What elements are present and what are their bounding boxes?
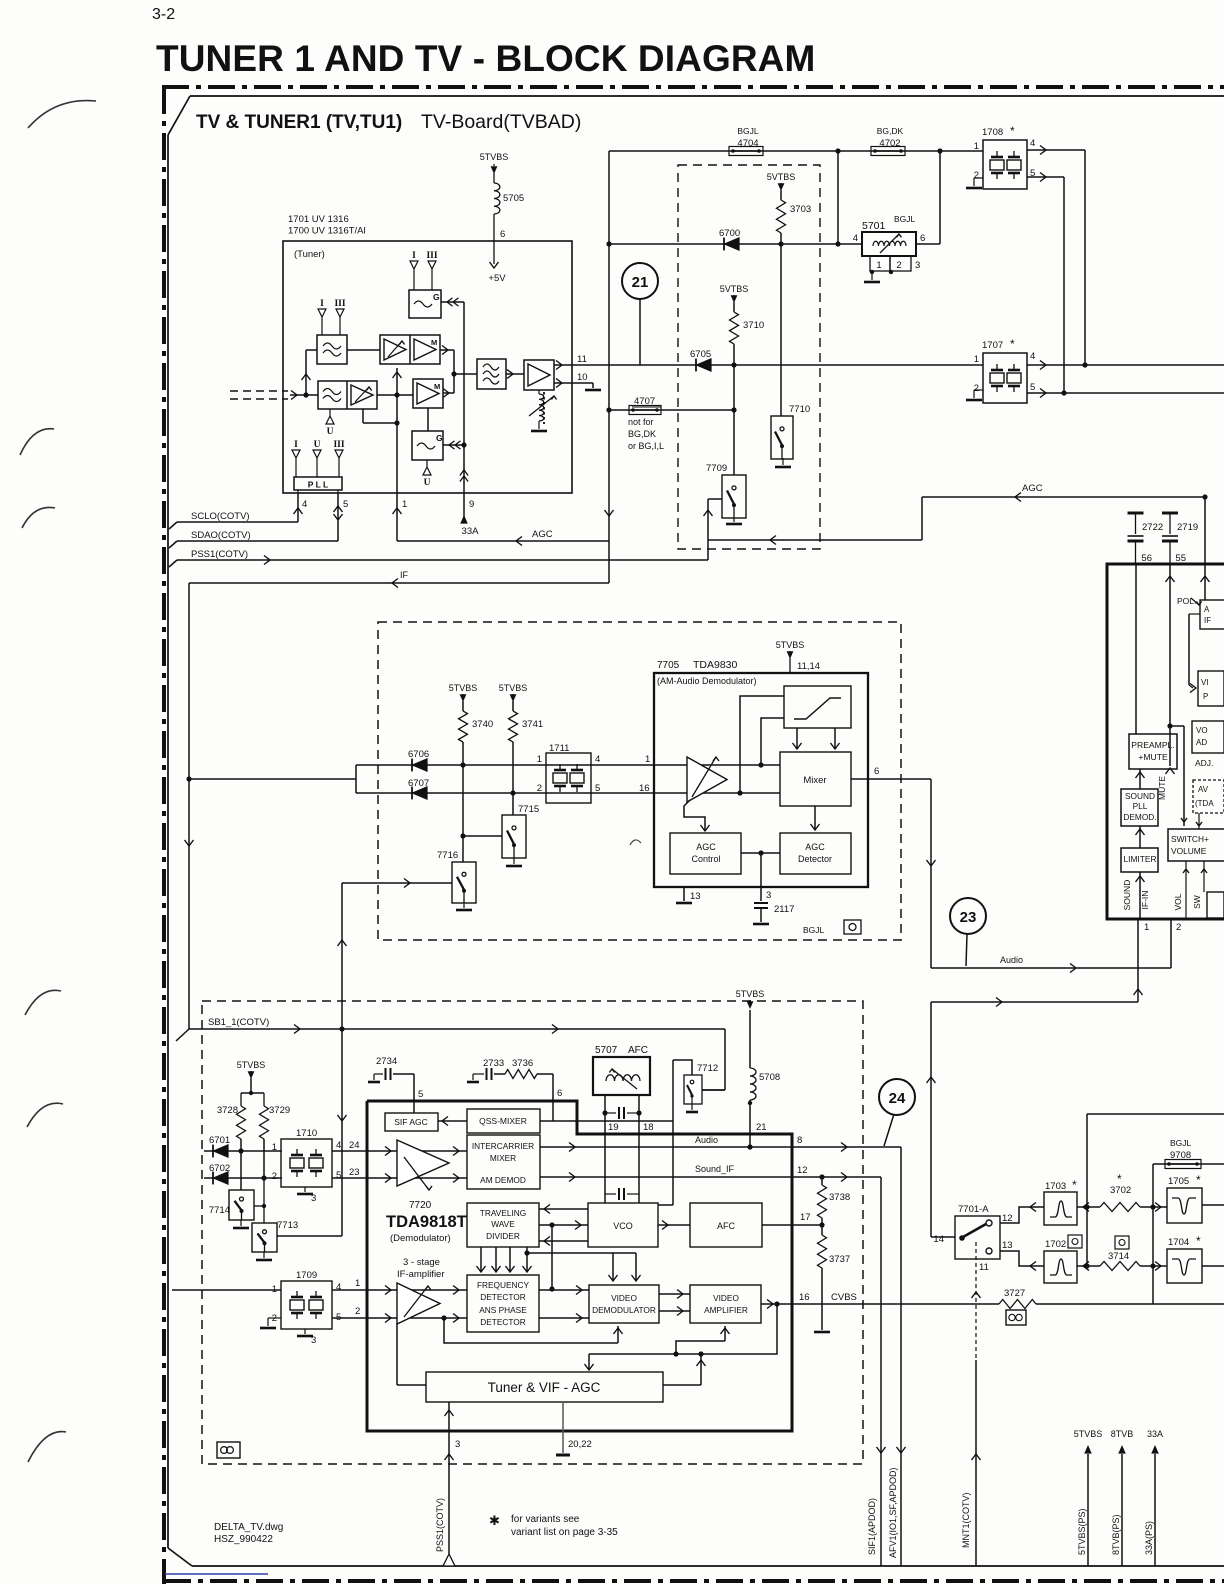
svg-text:4704: 4704 bbox=[737, 138, 758, 149]
svg-text:23: 23 bbox=[349, 1167, 360, 1178]
svg-text:IF: IF bbox=[1204, 616, 1211, 625]
svg-text:3-2: 3-2 bbox=[152, 6, 175, 23]
svg-text:2734: 2734 bbox=[376, 1056, 397, 1067]
svg-text:5701: 5701 bbox=[862, 220, 886, 232]
svg-text:3737: 3737 bbox=[829, 1254, 850, 1265]
svg-text:5TVBS: 5TVBS bbox=[237, 1060, 266, 1070]
svg-text:3: 3 bbox=[915, 260, 920, 271]
svg-text:ADJ.: ADJ. bbox=[1195, 758, 1213, 768]
svg-text:III: III bbox=[334, 299, 345, 309]
svg-text:DELTA_TV.dwg: DELTA_TV.dwg bbox=[214, 1522, 283, 1533]
svg-text:11,14: 11,14 bbox=[797, 661, 820, 672]
svg-text:MNT1(COTV): MNT1(COTV) bbox=[961, 1493, 971, 1549]
svg-text:1: 1 bbox=[355, 1278, 360, 1289]
svg-text:11: 11 bbox=[577, 354, 587, 365]
svg-text:24: 24 bbox=[349, 1140, 360, 1151]
svg-text:III: III bbox=[333, 440, 344, 450]
svg-text:U: U bbox=[424, 478, 431, 488]
svg-text:3727: 3727 bbox=[1004, 1288, 1025, 1299]
svg-text:3740: 3740 bbox=[472, 719, 493, 730]
svg-text:VOL: VOL bbox=[1173, 893, 1183, 910]
svg-text:ANS PHASE: ANS PHASE bbox=[479, 1305, 527, 1315]
svg-text:P L L: P L L bbox=[308, 480, 328, 490]
svg-text:✱: ✱ bbox=[489, 1513, 500, 1528]
svg-text:SCLO(COTV): SCLO(COTV) bbox=[191, 511, 250, 522]
svg-text:1710: 1710 bbox=[296, 1128, 317, 1139]
svg-text:G: G bbox=[433, 292, 440, 302]
svg-text:5: 5 bbox=[336, 1170, 341, 1181]
svg-text:10: 10 bbox=[577, 372, 588, 383]
svg-text:INTERCARRIER: INTERCARRIER bbox=[472, 1141, 534, 1151]
svg-text:6: 6 bbox=[920, 233, 925, 244]
svg-text:6701: 6701 bbox=[209, 1135, 230, 1146]
svg-text:7716: 7716 bbox=[437, 850, 458, 861]
svg-text:Tuner & VIF - AGC: Tuner & VIF - AGC bbox=[488, 1380, 601, 1395]
svg-text:4: 4 bbox=[336, 1282, 341, 1293]
svg-text:*: * bbox=[1196, 1234, 1201, 1248]
svg-text:16: 16 bbox=[639, 783, 650, 794]
svg-text:2: 2 bbox=[355, 1306, 360, 1317]
svg-text:5707: 5707 bbox=[595, 1045, 618, 1056]
svg-text:(Demodulator): (Demodulator) bbox=[390, 1233, 451, 1244]
svg-text:AGC: AGC bbox=[696, 842, 716, 852]
svg-text:7712: 7712 bbox=[697, 1063, 718, 1074]
svg-text:2117: 2117 bbox=[774, 904, 794, 915]
svg-text:3714: 3714 bbox=[1108, 1251, 1129, 1262]
svg-text:PLL: PLL bbox=[1133, 801, 1148, 811]
svg-text:SOUND: SOUND bbox=[1122, 880, 1132, 911]
svg-text:2: 2 bbox=[537, 783, 542, 794]
svg-text:DEMOD.: DEMOD. bbox=[1123, 812, 1156, 822]
svg-text:4: 4 bbox=[1030, 351, 1035, 362]
svg-text:1708: 1708 bbox=[982, 127, 1003, 138]
svg-text:3736: 3736 bbox=[512, 1058, 533, 1069]
svg-text:1: 1 bbox=[876, 260, 881, 271]
svg-text:4: 4 bbox=[595, 754, 600, 765]
svg-text:3729: 3729 bbox=[269, 1105, 290, 1116]
svg-text:7710: 7710 bbox=[789, 404, 810, 415]
svg-text:G: G bbox=[436, 433, 443, 443]
svg-text:21: 21 bbox=[756, 1122, 767, 1133]
svg-text:6700: 6700 bbox=[719, 228, 740, 239]
svg-text:+5V: +5V bbox=[488, 273, 506, 284]
svg-text:IF-IN: IF-IN bbox=[1140, 891, 1150, 910]
svg-text:4702: 4702 bbox=[879, 138, 900, 149]
svg-text:13: 13 bbox=[1002, 1240, 1013, 1251]
svg-text:1: 1 bbox=[402, 499, 407, 510]
svg-text:Control: Control bbox=[691, 854, 720, 864]
svg-text:11: 11 bbox=[979, 1262, 989, 1273]
svg-text:1: 1 bbox=[1144, 922, 1149, 933]
svg-text:56: 56 bbox=[1141, 553, 1152, 564]
svg-text:SIF AGC: SIF AGC bbox=[394, 1117, 428, 1127]
svg-text:1704: 1704 bbox=[1168, 1237, 1189, 1248]
svg-text:5TVBS(PS): 5TVBS(PS) bbox=[1077, 1508, 1087, 1555]
svg-text:3: 3 bbox=[311, 1335, 316, 1346]
svg-text:18: 18 bbox=[643, 1122, 654, 1133]
svg-text:7705: 7705 bbox=[657, 660, 680, 671]
svg-text:A: A bbox=[1204, 605, 1210, 614]
svg-text:13: 13 bbox=[690, 891, 701, 902]
svg-text:variant list on page 3-35: variant list on page 3-35 bbox=[511, 1527, 618, 1538]
svg-text:8TVB(PS): 8TVB(PS) bbox=[1111, 1514, 1121, 1555]
svg-text:6707: 6707 bbox=[408, 778, 429, 789]
svg-text:6706: 6706 bbox=[408, 749, 429, 760]
svg-text:(AM-Audio Demodulator): (AM-Audio Demodulator) bbox=[657, 676, 757, 686]
svg-text:SIF1(APDOD): SIF1(APDOD) bbox=[867, 1498, 877, 1555]
svg-text:DEMODULATOR: DEMODULATOR bbox=[592, 1305, 656, 1315]
svg-text:+MUTE: +MUTE bbox=[1138, 752, 1168, 762]
svg-text:TDA9818T: TDA9818T bbox=[386, 1213, 467, 1231]
svg-text:BGJL: BGJL bbox=[737, 126, 759, 136]
svg-text:DETECTOR: DETECTOR bbox=[480, 1292, 525, 1302]
svg-text:AMPLIFIER: AMPLIFIER bbox=[704, 1305, 748, 1315]
svg-text:*: * bbox=[1010, 337, 1015, 351]
svg-text:3728: 3728 bbox=[217, 1105, 238, 1116]
svg-text:1: 1 bbox=[645, 754, 650, 765]
svg-text:55: 55 bbox=[1175, 553, 1186, 564]
svg-text:TUNER 1 AND TV - BLOCK DIAGRAM: TUNER 1 AND TV - BLOCK DIAGRAM bbox=[156, 38, 815, 79]
svg-text:16: 16 bbox=[799, 1292, 810, 1303]
svg-text:CVBS: CVBS bbox=[831, 1292, 857, 1303]
svg-text:20,22: 20,22 bbox=[568, 1439, 592, 1450]
svg-text:6: 6 bbox=[500, 229, 505, 240]
svg-text:3: 3 bbox=[766, 890, 771, 901]
svg-text:7709: 7709 bbox=[706, 463, 727, 474]
svg-text:LIMITER: LIMITER bbox=[1123, 854, 1156, 864]
svg-text:VOLUME: VOLUME bbox=[1171, 846, 1207, 856]
svg-text:3 - stage: 3 - stage bbox=[403, 1257, 440, 1268]
svg-text:AGC: AGC bbox=[805, 842, 825, 852]
svg-text:2: 2 bbox=[896, 260, 901, 271]
svg-text:Audio: Audio bbox=[1000, 955, 1023, 965]
svg-text:not for: not for bbox=[628, 417, 654, 427]
svg-text:2: 2 bbox=[272, 1171, 277, 1182]
svg-text:Detector: Detector bbox=[798, 854, 832, 864]
svg-text:1705: 1705 bbox=[1168, 1176, 1189, 1187]
svg-text:Audio: Audio bbox=[695, 1135, 718, 1145]
svg-text:1: 1 bbox=[537, 754, 542, 765]
svg-text:5VTBS: 5VTBS bbox=[720, 284, 749, 294]
svg-text:23: 23 bbox=[960, 909, 977, 926]
svg-text:SDAO(COTV): SDAO(COTV) bbox=[191, 530, 251, 541]
svg-text:QSS-MIXER: QSS-MIXER bbox=[479, 1116, 527, 1126]
svg-text:7713: 7713 bbox=[277, 1220, 298, 1231]
svg-text:SWITCH+: SWITCH+ bbox=[1171, 834, 1209, 844]
svg-text:AFC: AFC bbox=[628, 1045, 648, 1056]
svg-text:M: M bbox=[434, 382, 440, 391]
svg-text:1: 1 bbox=[974, 354, 979, 365]
svg-text:PSS1(COTV): PSS1(COTV) bbox=[191, 549, 248, 560]
svg-text:U: U bbox=[314, 440, 321, 450]
svg-text:I: I bbox=[320, 299, 324, 309]
svg-text:VCO: VCO bbox=[613, 1221, 633, 1231]
svg-text:17: 17 bbox=[800, 1212, 811, 1223]
svg-text:*: * bbox=[1196, 1173, 1201, 1187]
svg-text:5TVBS: 5TVBS bbox=[776, 640, 805, 650]
svg-text:1701 UV 1316: 1701 UV 1316 bbox=[288, 214, 349, 225]
svg-text:2733: 2733 bbox=[483, 1058, 504, 1069]
svg-text:1703: 1703 bbox=[1045, 1181, 1066, 1192]
svg-text:PREAMPL.: PREAMPL. bbox=[1131, 740, 1174, 750]
svg-text:I: I bbox=[412, 251, 416, 261]
svg-text:BGJL: BGJL bbox=[803, 925, 825, 935]
svg-text:HSZ_990422: HSZ_990422 bbox=[214, 1534, 273, 1545]
svg-text:(TDA: (TDA bbox=[1195, 799, 1214, 808]
svg-text:5TVBS: 5TVBS bbox=[1074, 1429, 1103, 1439]
svg-text:6705: 6705 bbox=[690, 349, 711, 360]
svg-text:3710: 3710 bbox=[743, 320, 764, 331]
svg-text:1702: 1702 bbox=[1045, 1239, 1066, 1250]
svg-text:4: 4 bbox=[853, 233, 858, 244]
svg-text:AV: AV bbox=[1198, 785, 1209, 794]
svg-text:VIDEO: VIDEO bbox=[611, 1293, 637, 1303]
svg-text:1707: 1707 bbox=[982, 340, 1003, 351]
svg-text:21: 21 bbox=[632, 274, 649, 291]
svg-text:7715: 7715 bbox=[518, 804, 539, 815]
svg-text:AD: AD bbox=[1196, 738, 1207, 747]
svg-text:or BG,I,L: or BG,I,L bbox=[628, 441, 664, 451]
svg-text:5TVBS: 5TVBS bbox=[499, 683, 528, 693]
svg-text:1: 1 bbox=[974, 141, 979, 152]
svg-text:9: 9 bbox=[469, 499, 474, 510]
svg-text:AFV1(IO1,SF,APDOD): AFV1(IO1,SF,APDOD) bbox=[888, 1467, 898, 1558]
svg-text:3702: 3702 bbox=[1110, 1185, 1131, 1196]
svg-text:Sound_IF: Sound_IF bbox=[695, 1164, 735, 1174]
svg-text:PSS1(COTV): PSS1(COTV) bbox=[435, 1498, 445, 1552]
svg-text:TV-Board(TVBAD): TV-Board(TVBAD) bbox=[421, 111, 581, 133]
svg-text:1709: 1709 bbox=[296, 1270, 317, 1281]
svg-text:POL.: POL. bbox=[1177, 596, 1196, 606]
svg-text:WAVE: WAVE bbox=[491, 1219, 515, 1229]
svg-text:SOUND: SOUND bbox=[1125, 791, 1155, 801]
svg-text:Mixer: Mixer bbox=[803, 775, 826, 786]
svg-text:5708: 5708 bbox=[759, 1072, 780, 1083]
svg-text:2: 2 bbox=[1176, 922, 1181, 933]
svg-text:M: M bbox=[431, 338, 437, 347]
svg-text:SW: SW bbox=[1192, 895, 1202, 909]
svg-text:MIXER: MIXER bbox=[490, 1153, 516, 1163]
svg-text:BG,DK: BG,DK bbox=[877, 126, 904, 136]
svg-text:1: 1 bbox=[272, 1142, 277, 1153]
svg-text:VI: VI bbox=[1201, 678, 1209, 687]
svg-text:*: * bbox=[1072, 1178, 1077, 1192]
svg-text:AFC: AFC bbox=[717, 1221, 736, 1231]
svg-text:6: 6 bbox=[874, 766, 879, 777]
svg-text:AGC: AGC bbox=[532, 529, 553, 540]
svg-text:5: 5 bbox=[343, 499, 348, 510]
svg-text:5705: 5705 bbox=[503, 193, 524, 204]
svg-text:5TVBS: 5TVBS bbox=[449, 683, 478, 693]
svg-text:BG,DK: BG,DK bbox=[628, 429, 656, 439]
svg-text:6: 6 bbox=[557, 1088, 562, 1099]
svg-text:TRAVELING: TRAVELING bbox=[480, 1208, 526, 1218]
svg-text:7714: 7714 bbox=[209, 1205, 230, 1216]
svg-text:AM DEMOD: AM DEMOD bbox=[480, 1175, 526, 1185]
svg-text:*: * bbox=[1010, 124, 1015, 138]
svg-text:5: 5 bbox=[418, 1089, 423, 1100]
svg-text:33A: 33A bbox=[1147, 1429, 1163, 1439]
svg-text:4: 4 bbox=[336, 1140, 341, 1151]
svg-text:12: 12 bbox=[797, 1165, 808, 1176]
svg-text:5: 5 bbox=[595, 783, 600, 794]
svg-text:TV & TUNER1 (TV,TU1): TV & TUNER1 (TV,TU1) bbox=[196, 112, 402, 133]
svg-text:3738: 3738 bbox=[829, 1192, 850, 1203]
svg-text:5TVBS: 5TVBS bbox=[480, 152, 509, 162]
svg-text:4: 4 bbox=[1030, 138, 1035, 149]
svg-text:FREQUENCY: FREQUENCY bbox=[477, 1280, 530, 1290]
svg-text:5: 5 bbox=[1030, 382, 1035, 393]
svg-text:33A: 33A bbox=[462, 526, 480, 537]
svg-text:BGJL: BGJL bbox=[894, 214, 916, 224]
svg-text:IF: IF bbox=[400, 570, 409, 580]
svg-text:8: 8 bbox=[797, 1135, 802, 1146]
svg-text:7720: 7720 bbox=[409, 1200, 432, 1211]
svg-text:for variants see: for variants see bbox=[511, 1514, 580, 1525]
svg-text:14: 14 bbox=[933, 1234, 944, 1245]
svg-text:III: III bbox=[426, 251, 437, 261]
svg-text:(Tuner): (Tuner) bbox=[294, 249, 325, 260]
svg-text:VIDEO: VIDEO bbox=[713, 1293, 739, 1303]
svg-text:3: 3 bbox=[455, 1439, 460, 1450]
svg-text:*: * bbox=[1117, 1172, 1122, 1186]
svg-text:5VTBS: 5VTBS bbox=[767, 172, 796, 182]
svg-text:DETECTOR: DETECTOR bbox=[480, 1317, 525, 1327]
svg-text:P: P bbox=[1203, 692, 1208, 701]
svg-text:3: 3 bbox=[311, 1193, 316, 1204]
svg-text:I: I bbox=[294, 440, 298, 450]
svg-text:AGC: AGC bbox=[1022, 483, 1043, 494]
svg-text:DIVIDER: DIVIDER bbox=[486, 1231, 520, 1241]
svg-text:TDA9830: TDA9830 bbox=[693, 659, 738, 671]
svg-text:1700 UV 1316T/Al: 1700 UV 1316T/Al bbox=[288, 226, 366, 237]
svg-text:33A(PS): 33A(PS) bbox=[1144, 1521, 1154, 1555]
svg-text:7701-A: 7701-A bbox=[958, 1204, 989, 1215]
svg-text:2722: 2722 bbox=[1142, 522, 1163, 533]
svg-text:3741: 3741 bbox=[522, 719, 543, 730]
svg-text:8TVB: 8TVB bbox=[1111, 1429, 1134, 1439]
svg-text:IF-amplifier: IF-amplifier bbox=[397, 1269, 445, 1280]
svg-text:U: U bbox=[327, 427, 334, 437]
svg-text:BGJL: BGJL bbox=[1170, 1138, 1192, 1148]
svg-text:SB1_1(COTV): SB1_1(COTV) bbox=[208, 1017, 269, 1028]
svg-text:VO: VO bbox=[1196, 726, 1208, 735]
svg-text:24: 24 bbox=[889, 1090, 906, 1107]
svg-text:5TVBS: 5TVBS bbox=[736, 989, 765, 999]
svg-text:2719: 2719 bbox=[1177, 522, 1198, 533]
svg-text:3703: 3703 bbox=[790, 204, 811, 215]
svg-text:4: 4 bbox=[302, 499, 307, 510]
svg-text:19: 19 bbox=[608, 1122, 619, 1133]
